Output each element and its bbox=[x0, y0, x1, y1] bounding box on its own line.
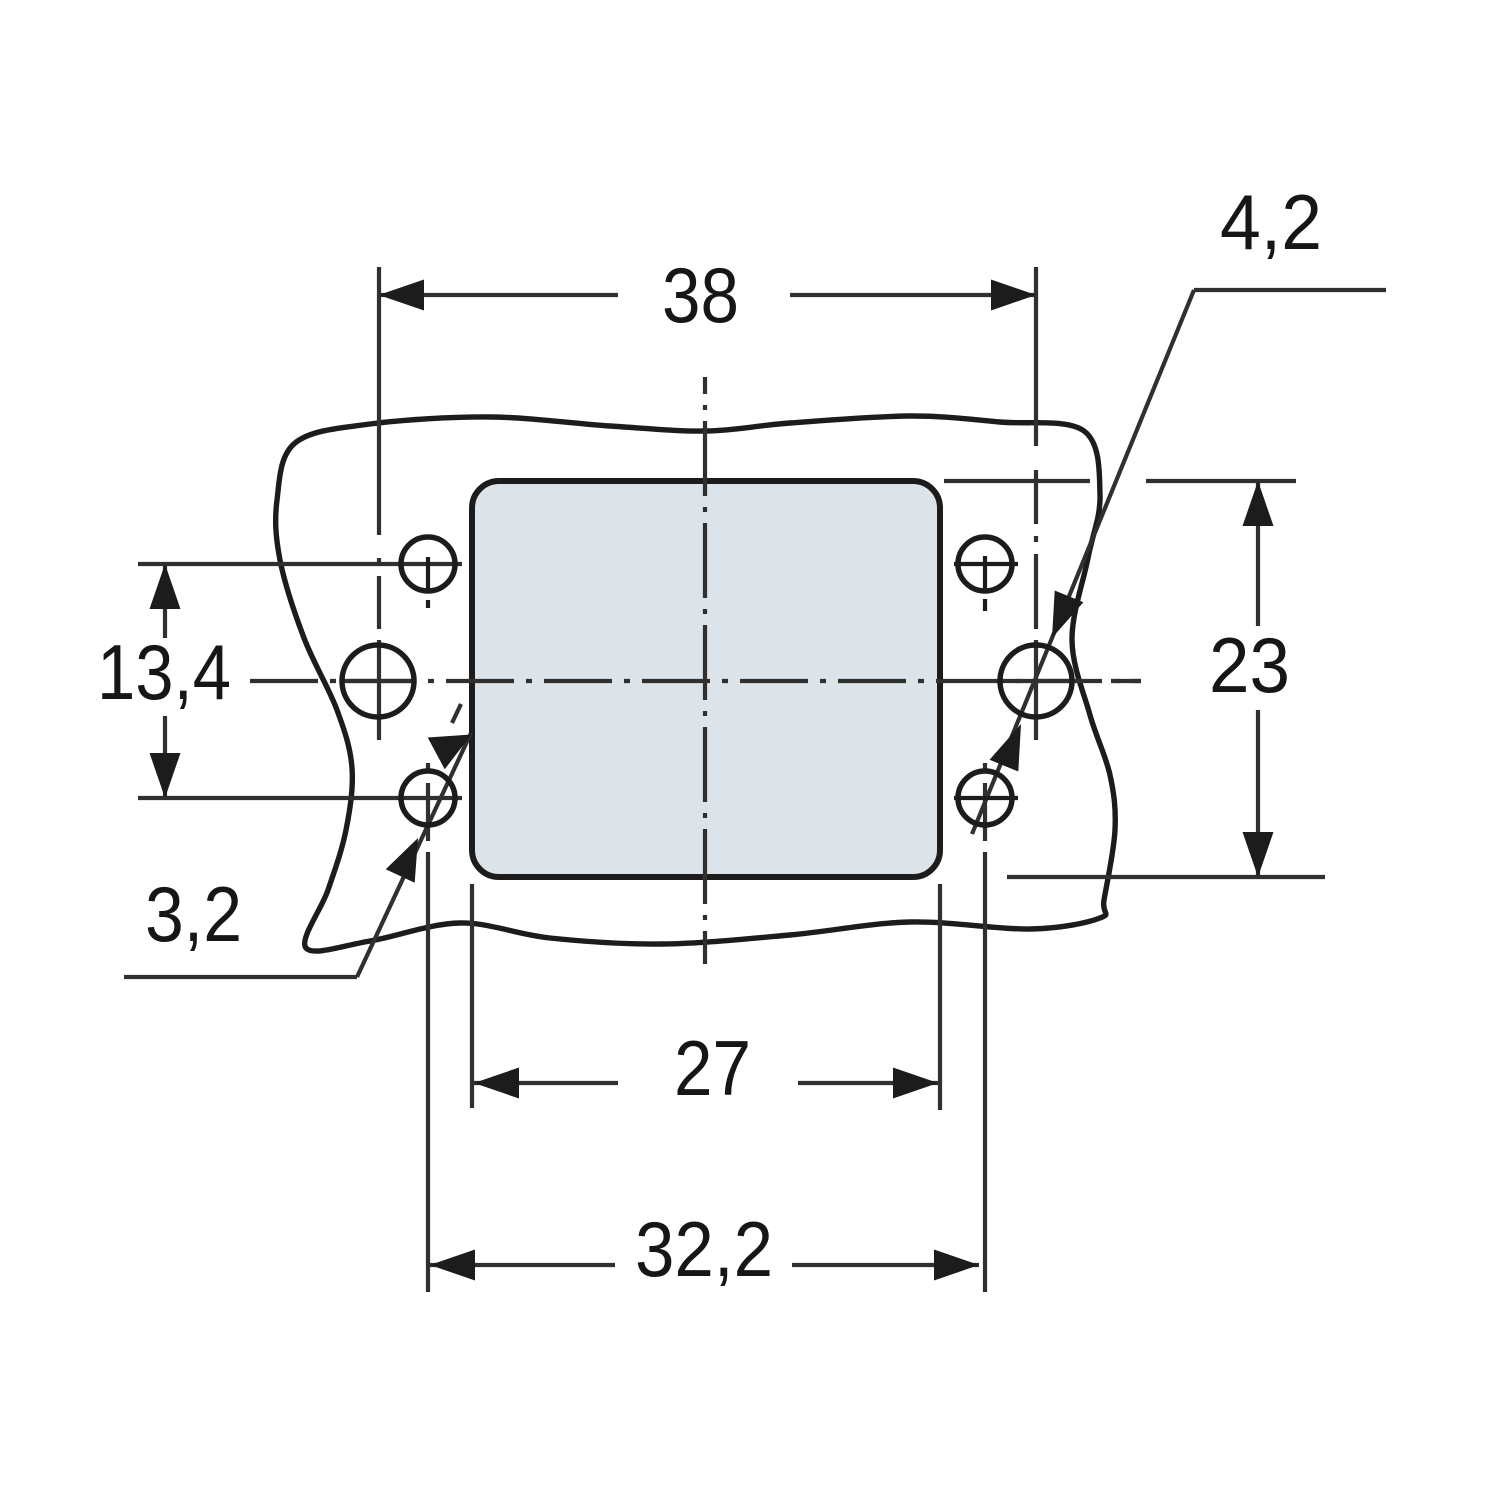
cutout 27x23 rounded square bbox=[472, 481, 940, 877]
small hole top-left 3.2 bbox=[401, 537, 455, 608]
dimension 13,4 arrows bbox=[150, 564, 181, 798]
27 extension lines below cutout bbox=[472, 884, 940, 1110]
13,4 extension lines through left small holes bbox=[138, 564, 462, 798]
svg-text:3,2: 3,2 bbox=[145, 870, 242, 958]
23 extension line from cutout top edge bbox=[944, 479, 1296, 483]
vertical centerline bbox=[703, 377, 707, 964]
horizontal centerline bbox=[250, 679, 1141, 683]
leader line for 4,2 hole diameter bbox=[972, 290, 1386, 834]
4,2 leader arrows bbox=[990, 591, 1084, 772]
dimension 32,2 line bbox=[430, 1263, 979, 1267]
dimension 27 line bbox=[474, 1081, 938, 1085]
dimension 23 arrows bbox=[1243, 481, 1274, 877]
dimension 13,4 line bbox=[163, 564, 167, 798]
3,2 leader arrows bbox=[386, 735, 472, 883]
large hole left 4.2 bbox=[342, 645, 414, 717]
dimension 38 line bbox=[379, 293, 1036, 297]
dimension 32,2 arrows bbox=[430, 1250, 979, 1281]
32,2 extension verticals through lower small holes bbox=[428, 763, 985, 1292]
small hole top-right 3.2 bbox=[954, 537, 1018, 611]
dimension 38 arrows bbox=[379, 280, 1036, 311]
23 extension line from cutout bottom edge bbox=[1007, 875, 1325, 879]
svg-text:27: 27 bbox=[674, 1024, 751, 1112]
dimension 23 line bbox=[1256, 481, 1260, 877]
svg-text:32,2: 32,2 bbox=[635, 1205, 773, 1293]
large hole right 4.2 bbox=[1000, 645, 1072, 717]
leader line for 3,2 hole diameter bbox=[124, 704, 471, 977]
extension line from left 4.2 hole up to 38 dimension bbox=[377, 267, 381, 740]
svg-text:4,2: 4,2 bbox=[1220, 178, 1322, 266]
svg-text:23: 23 bbox=[1209, 621, 1290, 709]
horizontal centerline tail bbox=[1111, 679, 1141, 683]
dimension 27 arrows bbox=[474, 1068, 938, 1099]
small hole bottom-left 3.2 bbox=[401, 771, 455, 825]
small hole bottom-right 3.2 bbox=[954, 771, 1018, 825]
right 4.2 hole horizontal crosshair bbox=[998, 679, 1074, 683]
extension line from right 4.2 hole up to 38 dimension bbox=[1034, 267, 1038, 740]
svg-text:13,4: 13,4 bbox=[97, 628, 231, 716]
panel material wavy outline bbox=[276, 416, 1116, 951]
left 4.2 hole horizontal crosshair bbox=[340, 679, 416, 683]
svg-text:38: 38 bbox=[662, 251, 739, 339]
